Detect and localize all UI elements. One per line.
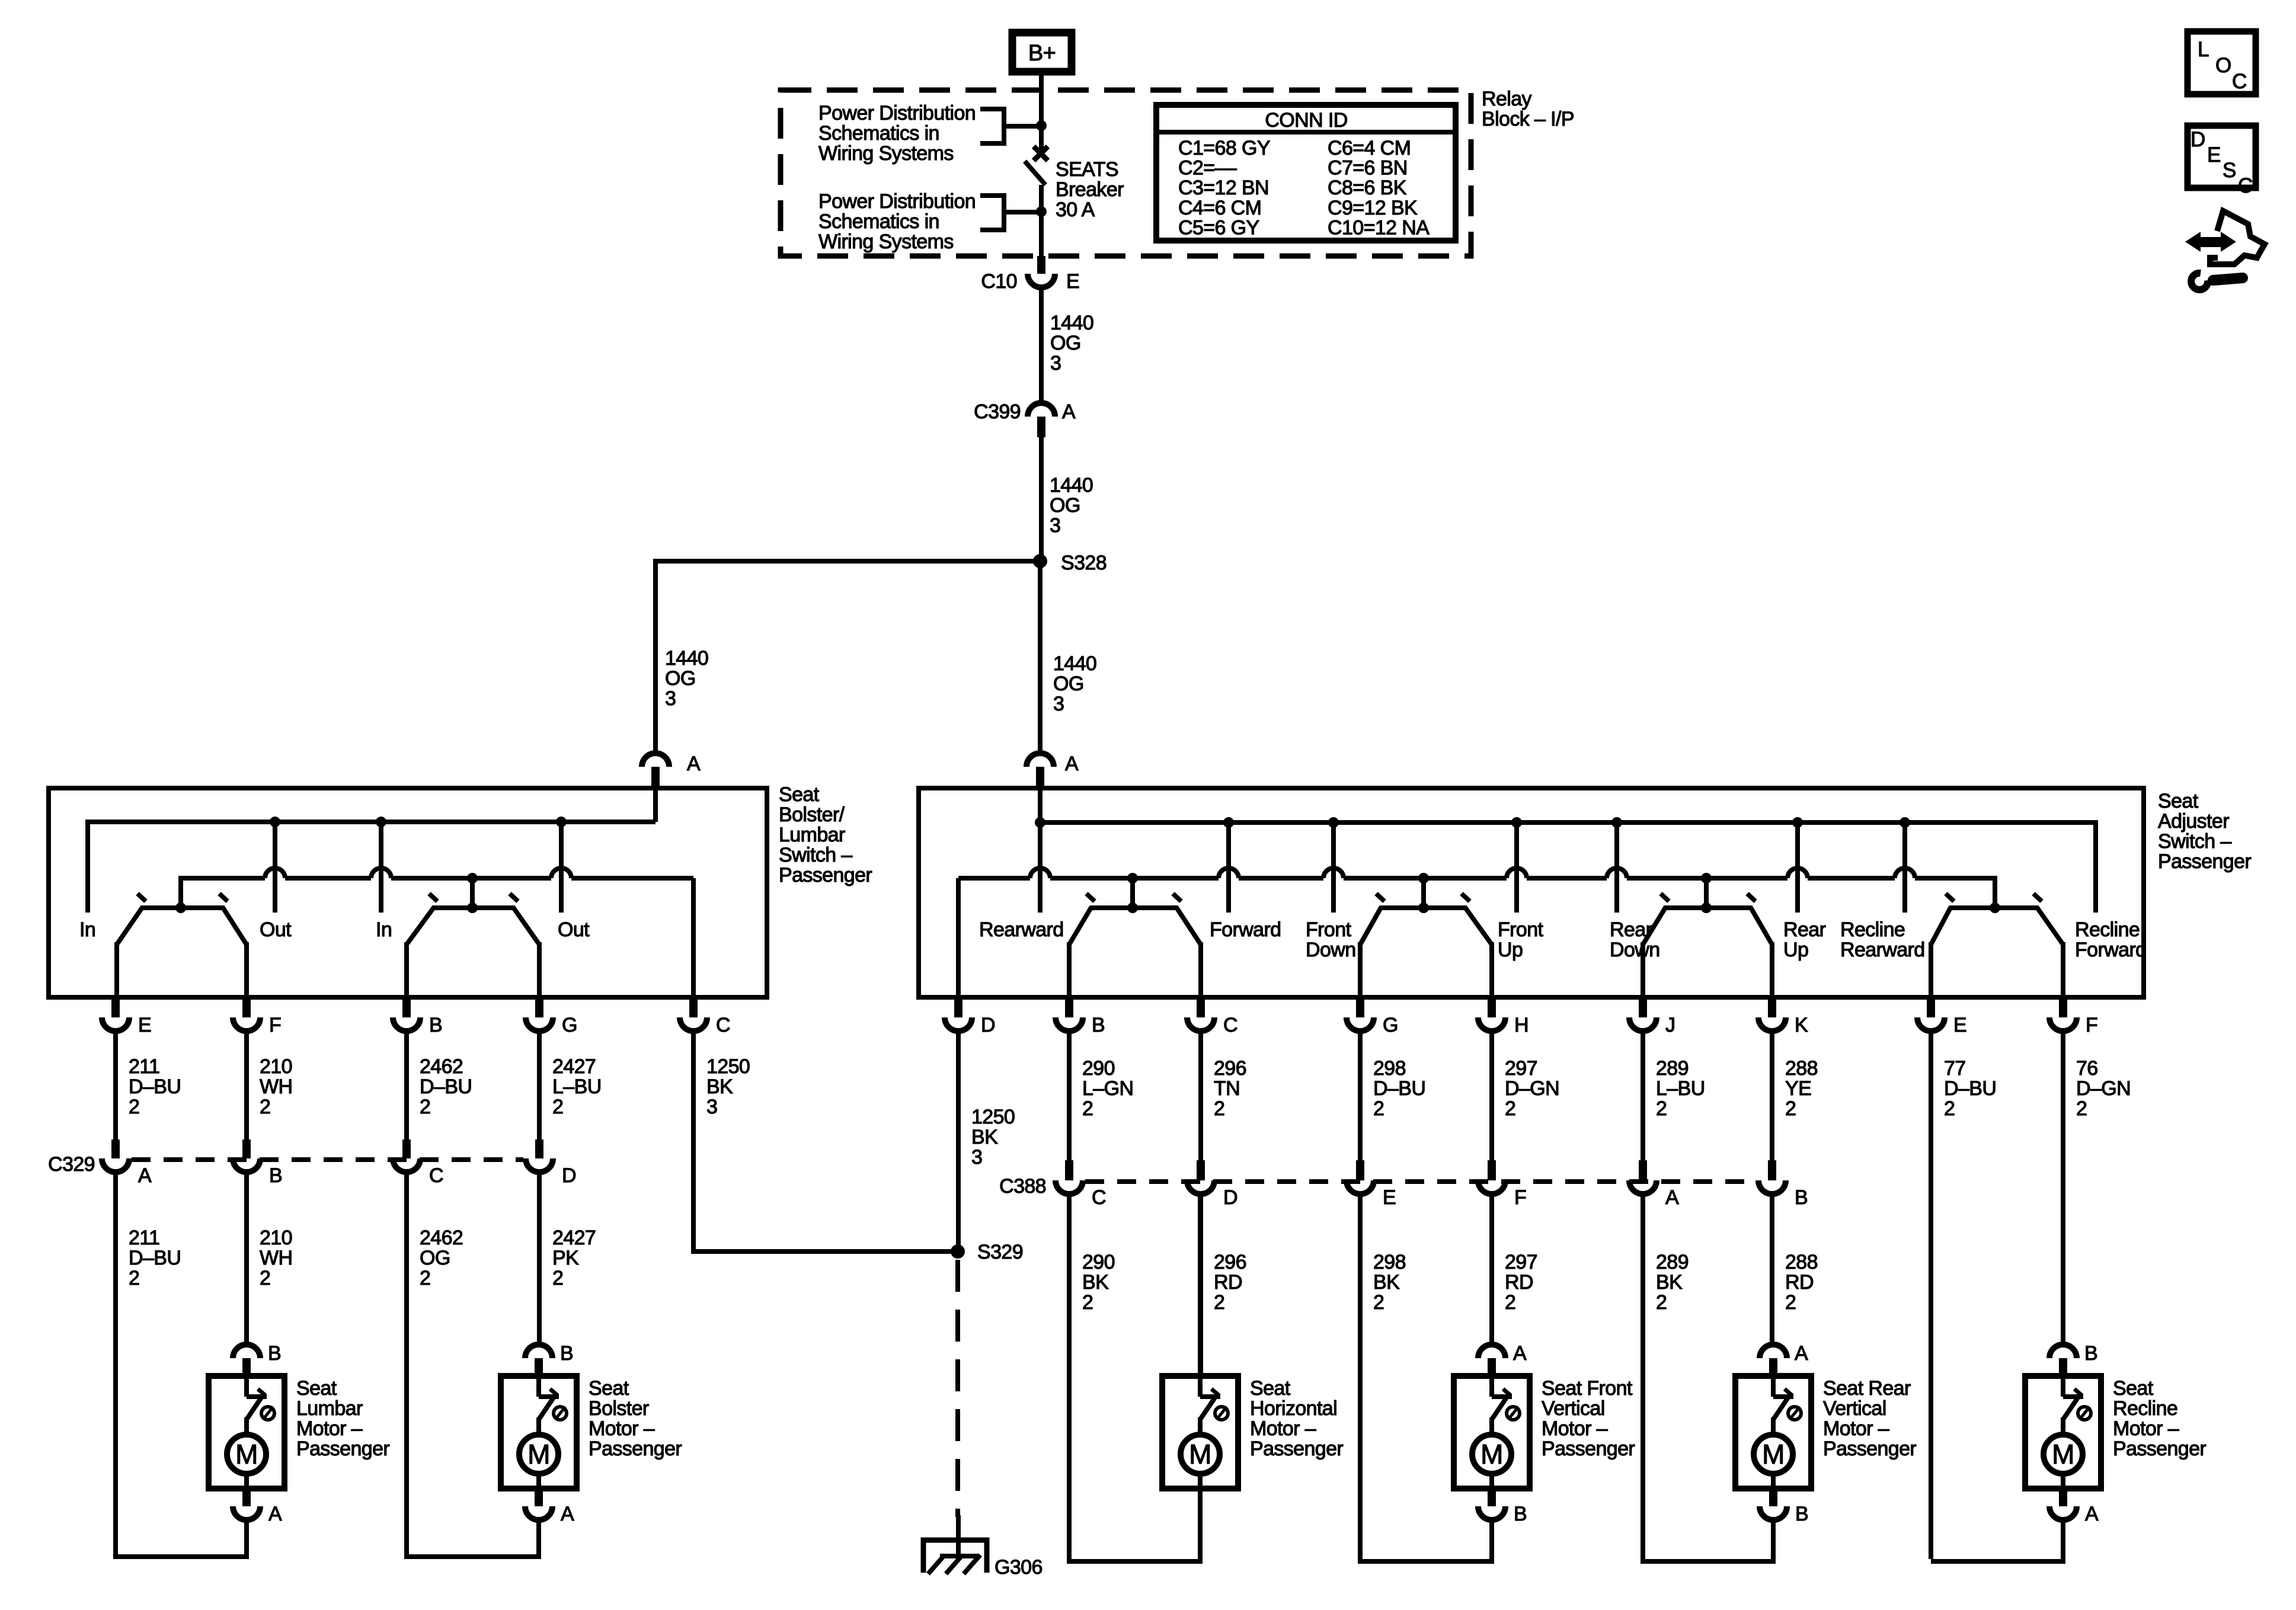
- svg-text:Power Distribution: Power Distribution: [818, 102, 976, 124]
- svg-text:2: 2: [552, 1096, 563, 1118]
- svg-text:210: 210: [260, 1055, 292, 1078]
- motor box: [2025, 1376, 2101, 1489]
- splice S329: [951, 1244, 965, 1259]
- svg-text:Motor –: Motor –: [1250, 1417, 1316, 1440]
- switch pair bar ['E', 'F']: [1950, 905, 2038, 910]
- svg-text:Out: Out: [260, 918, 292, 941]
- svg-text:B: B: [1514, 1503, 1527, 1525]
- double arrow icon: [2185, 232, 2236, 252]
- svg-text:2: 2: [420, 1267, 430, 1289]
- Seat Adjuster Switch box: [919, 788, 2144, 997]
- bar2 tick right: [510, 894, 518, 901]
- relay block dashed box: [781, 90, 1471, 256]
- svg-text:D: D: [2191, 128, 2205, 151]
- motor thermal protector circle: [261, 1407, 274, 1420]
- rail dot Forward: [1223, 817, 1234, 828]
- svg-text:1440: 1440: [1053, 652, 1096, 675]
- svg-text:C10: C10: [981, 270, 1017, 293]
- left box ground rail: [181, 876, 265, 881]
- svg-text:296: 296: [1214, 1057, 1246, 1080]
- switch arm E: [117, 907, 143, 945]
- ground hatch 2: [946, 1555, 962, 1574]
- svg-text:D–GN: D–GN: [2076, 1077, 2131, 1100]
- svg-text:PK: PK: [552, 1247, 579, 1269]
- motor wire M to bottom: [244, 1474, 249, 1489]
- connector A right switch: [1027, 753, 1054, 767]
- svg-text:Seat: Seat: [296, 1377, 337, 1400]
- motor connector top pin B: [525, 1345, 552, 1358]
- motor box: [1454, 1376, 1530, 1489]
- ground rail corner to bar1: [178, 876, 183, 908]
- motor wire M to bottom: [2061, 1474, 2065, 1489]
- svg-text:BK: BK: [1082, 1271, 1109, 1294]
- motor contact tick: [550, 1389, 558, 1395]
- svg-text:Seat: Seat: [2158, 790, 2199, 812]
- connector C388 pin D: [1197, 1160, 1205, 1180]
- svg-text:D: D: [981, 1014, 995, 1036]
- svg-text:TN: TN: [1214, 1077, 1240, 1100]
- svg-text:Passenger: Passenger: [1250, 1438, 1343, 1460]
- svg-text:F: F: [269, 1014, 281, 1036]
- svg-text:Schematics in: Schematics in: [818, 122, 939, 145]
- rail dot FrontDown: [1328, 817, 1339, 828]
- svg-text:Switch –: Switch –: [2158, 830, 2231, 853]
- svg-text:289: 289: [1656, 1057, 1689, 1080]
- wire 290 BK loop: [1069, 1194, 1198, 1561]
- motor internal jog: [539, 1394, 559, 1399]
- svg-text:Forward: Forward: [2075, 939, 2147, 961]
- svg-text:B: B: [2084, 1342, 2097, 1365]
- motor wire to M: [1198, 1417, 1203, 1435]
- rail dot Rearward: [1035, 817, 1045, 828]
- wire 289 BK loop: [1643, 1194, 1771, 1561]
- svg-text:Seat: Seat: [589, 1377, 629, 1400]
- svg-text:Passenger: Passenger: [2158, 850, 2251, 873]
- svg-text:C329: C329: [48, 1153, 95, 1176]
- svg-text:Passenger: Passenger: [296, 1438, 389, 1460]
- right box ground rail: [958, 876, 1030, 881]
- DESC icon box: [2188, 126, 2256, 188]
- svg-text:Bolster: Bolster: [589, 1397, 649, 1420]
- svg-text:YE: YE: [1785, 1077, 1811, 1100]
- ground hatch 3: [964, 1555, 980, 1574]
- left box B+ rail: [85, 820, 655, 824]
- motor thermal lever: [1774, 1397, 1789, 1419]
- svg-text:S328: S328: [1061, 552, 1107, 574]
- svg-text:E: E: [1953, 1014, 1966, 1036]
- rail drop FrontUp: [1514, 822, 1519, 913]
- wire 2462 D-BU seg1: [404, 1031, 409, 1140]
- svg-text:Front: Front: [1498, 918, 1544, 941]
- switch pair bar ['G', 'H']: [1380, 905, 1466, 910]
- svg-text:2: 2: [129, 1267, 139, 1289]
- rail drop Forward: [1226, 822, 1231, 913]
- svg-text:290: 290: [1082, 1057, 1115, 1080]
- connector C10 pin E: [1037, 256, 1045, 274]
- svg-text:C: C: [1223, 1014, 1237, 1036]
- svg-text:A: A: [1513, 1342, 1527, 1365]
- svg-text:H: H: [1514, 1014, 1528, 1036]
- svg-text:76: 76: [2076, 1057, 2098, 1080]
- motor wire to M: [244, 1417, 249, 1435]
- motor contact tick: [2074, 1389, 2082, 1395]
- svg-text:D–BU: D–BU: [420, 1076, 472, 1098]
- svg-text:290: 290: [1082, 1251, 1115, 1273]
- ground rail corner to bar4: [1993, 876, 1997, 908]
- junction dot bracket2: [1036, 206, 1047, 217]
- connector C388 pin A: [1639, 1160, 1647, 1180]
- svg-text:E: E: [1066, 270, 1079, 293]
- switch pair bar ['J', 'K']: [1665, 905, 1751, 910]
- right box pin F: [2059, 1000, 2067, 1017]
- svg-text:C2=––: C2=––: [1178, 157, 1237, 180]
- wire 288 RD to rear vertical motor: [1770, 1194, 1774, 1345]
- left rail drop Out1: [273, 822, 277, 913]
- switch arm G: [513, 907, 539, 945]
- arm F wire to pin: [244, 942, 249, 997]
- wire 288 YE upper: [1770, 1031, 1774, 1160]
- svg-text:Vertical: Vertical: [1542, 1397, 1605, 1420]
- Seat Bolster/Lumbar Switch box: [49, 788, 767, 997]
- svg-text:M: M: [235, 1439, 258, 1470]
- svg-text:2: 2: [552, 1267, 563, 1289]
- wire 1250 BK to S329: [691, 1249, 958, 1254]
- wire 2462 OG seg2 loop: [407, 1172, 536, 1557]
- motor internal feed: [1198, 1376, 1203, 1397]
- svg-text:S329: S329: [977, 1241, 1023, 1263]
- svg-text:Block – I/P: Block – I/P: [1482, 108, 1574, 130]
- svg-text:L: L: [2198, 38, 2209, 61]
- svg-text:298: 298: [1373, 1251, 1406, 1273]
- svg-text:Passenger: Passenger: [1823, 1438, 1916, 1460]
- svg-text:288: 288: [1785, 1057, 1818, 1080]
- svg-text:BK: BK: [1656, 1271, 1683, 1294]
- connector C329 pin C: [402, 1140, 411, 1158]
- svg-text:C5=6 GY: C5=6 GY: [1178, 216, 1259, 239]
- rail corner drop ReclineForward: [2093, 820, 2098, 913]
- CONN ID table box: [1156, 105, 1456, 241]
- svg-text:RD: RD: [1505, 1271, 1533, 1294]
- wire breaker to C10: [1039, 185, 1044, 256]
- svg-text:C: C: [429, 1164, 443, 1187]
- svg-text:1440: 1440: [665, 647, 708, 670]
- wire 2427 PK seg2: [537, 1172, 542, 1345]
- wire 297 RD to front vertical motor: [1489, 1194, 1494, 1345]
- svg-text:BK: BK: [971, 1126, 998, 1148]
- svg-text:A: A: [561, 1503, 574, 1525]
- svg-text:B: B: [269, 1164, 282, 1187]
- motor connector bottom pin A: [535, 1489, 543, 1506]
- dashed wire S329 to ground: [955, 1260, 960, 1517]
- motor wire to M: [1489, 1417, 1494, 1435]
- svg-text:289: 289: [1656, 1251, 1689, 1273]
- switch pair1 common bar: [142, 905, 223, 910]
- svg-text:WH: WH: [260, 1247, 292, 1269]
- svg-text:C10=12 NA: C10=12 NA: [1328, 216, 1430, 239]
- motor internal feed: [244, 1376, 249, 1397]
- motor connector top pin A: [1760, 1345, 1787, 1358]
- svg-text:Wiring Systems: Wiring Systems: [818, 142, 954, 165]
- motor contact tick: [1211, 1389, 1219, 1395]
- svg-text:A: A: [1062, 401, 1076, 423]
- motor thermal protector circle: [2078, 1407, 2091, 1420]
- left box pin G: [535, 1000, 543, 1017]
- motor connector top pin A: [1478, 1345, 1505, 1358]
- wire bracket2 to main: [1004, 210, 1041, 215]
- svg-text:B: B: [1092, 1014, 1105, 1036]
- circuit breaker SEATS 30A - X contact: [1034, 146, 1048, 161]
- svg-text:C: C: [716, 1014, 730, 1036]
- svg-text:2: 2: [1214, 1097, 1224, 1120]
- svg-text:1250: 1250: [971, 1106, 1015, 1128]
- svg-text:D–BU: D–BU: [1373, 1077, 1425, 1100]
- ground rail dot pair1: [1127, 873, 1138, 884]
- svg-text:2: 2: [1373, 1097, 1384, 1120]
- svg-text:2: 2: [1505, 1097, 1515, 1120]
- svg-text:Motor –: Motor –: [1542, 1417, 1608, 1440]
- svg-text:Schematics in: Schematics in: [818, 210, 939, 233]
- svg-text:211: 211: [129, 1055, 159, 1078]
- motor M circle: [2044, 1435, 2083, 1474]
- motor internal jog: [1492, 1394, 1512, 1399]
- rail dot FrontUp: [1511, 817, 1522, 828]
- connector C329 pin B: [242, 1140, 251, 1158]
- svg-text:K: K: [1795, 1014, 1808, 1036]
- svg-text:E: E: [2207, 143, 2221, 167]
- svg-text:1440: 1440: [1050, 312, 1093, 334]
- svg-text:A: A: [268, 1503, 282, 1525]
- wire 296 RD to horizontal motor: [1198, 1194, 1203, 1376]
- wire 77 D-BU recline loop: [1929, 1031, 1933, 1559]
- svg-text:Bolster/: Bolster/: [779, 804, 845, 826]
- switch arm F: [2036, 907, 2063, 945]
- svg-text:Relay: Relay: [1482, 88, 1532, 110]
- motor M circle: [1181, 1435, 1220, 1474]
- svg-text:1440: 1440: [1050, 474, 1093, 497]
- svg-text:2427: 2427: [552, 1227, 596, 1249]
- svg-text:C1=68 GY: C1=68 GY: [1178, 137, 1270, 159]
- svg-text:2462: 2462: [420, 1227, 463, 1249]
- svg-text:A: A: [687, 753, 701, 775]
- rail drop ReclineRearward: [1902, 822, 1907, 913]
- svg-text:Motor –: Motor –: [296, 1417, 363, 1440]
- svg-text:3: 3: [665, 687, 676, 710]
- svg-text:30 A: 30 A: [1056, 199, 1095, 221]
- svg-text:211: 211: [129, 1227, 159, 1249]
- svg-text:C: C: [2238, 174, 2253, 197]
- svg-text:Passenger: Passenger: [589, 1438, 682, 1460]
- rail dot RearDown: [1611, 817, 1622, 828]
- svg-text:3: 3: [1050, 352, 1061, 375]
- svg-text:C6=4 CM: C6=4 CM: [1328, 137, 1411, 159]
- svg-text:G: G: [562, 1014, 577, 1036]
- svg-text:C9=12 BK: C9=12 BK: [1328, 197, 1418, 219]
- motor internal jog: [247, 1394, 267, 1399]
- left box pin E: [111, 1000, 120, 1017]
- svg-text:298: 298: [1373, 1057, 1406, 1080]
- svg-text:C3=12 BN: C3=12 BN: [1178, 177, 1269, 199]
- rail dot ReclineRearward: [1900, 817, 1910, 828]
- motor thermal lever: [2064, 1397, 2078, 1419]
- svg-text:B: B: [1795, 1186, 1808, 1209]
- motor thermal lever: [1492, 1397, 1507, 1419]
- svg-text:Rear: Rear: [1610, 918, 1652, 941]
- svg-text:Adjuster: Adjuster: [2158, 810, 2229, 833]
- svg-text:A: A: [138, 1164, 152, 1187]
- motor connector top pin B: [233, 1345, 260, 1358]
- LOC icon box: [2188, 31, 2256, 94]
- connector C388 pin B: [1768, 1160, 1776, 1180]
- connector C329 pin A: [111, 1140, 120, 1158]
- svg-text:In: In: [376, 918, 392, 941]
- ground rail dot pair2: [1418, 873, 1429, 884]
- ground rail stub pair2: [1421, 878, 1426, 908]
- wire 210 WH seg1: [244, 1031, 249, 1140]
- svg-text:Seat: Seat: [779, 783, 820, 806]
- motor thermal lever: [247, 1397, 262, 1419]
- left box pin C: [689, 1000, 698, 1017]
- svg-text:Recline: Recline: [2113, 1397, 2177, 1420]
- svg-text:Up: Up: [1783, 939, 1808, 961]
- left rail drop In1: [85, 820, 90, 913]
- svg-text:Rearward: Rearward: [1840, 939, 1925, 961]
- svg-text:M: M: [2052, 1439, 2074, 1470]
- wire 211 D-BU seg1: [113, 1031, 118, 1140]
- motor thermal lever: [1201, 1397, 1216, 1419]
- svg-text:In: In: [79, 918, 95, 941]
- arm E wire to pin: [114, 942, 119, 997]
- svg-text:210: 210: [260, 1227, 292, 1249]
- ground rail stub pair1: [1130, 878, 1135, 908]
- wire 76 D-GN to recline motor: [2061, 1031, 2065, 1345]
- left box pin F: [242, 1000, 251, 1017]
- svg-text:2: 2: [1785, 1097, 1796, 1120]
- motor contact tick: [258, 1389, 266, 1395]
- svg-text:297: 297: [1505, 1057, 1537, 1080]
- svg-text:B: B: [1795, 1503, 1808, 1525]
- svg-text:Recline: Recline: [1840, 918, 1905, 941]
- CONN ID header rule: [1156, 130, 1456, 135]
- right box pin C: [1197, 1000, 1205, 1017]
- motor connector bottom pin B: [1769, 1489, 1777, 1506]
- svg-text:2: 2: [420, 1096, 430, 1118]
- svg-text:Down: Down: [1610, 939, 1660, 961]
- switch arm C: [1176, 907, 1201, 945]
- motor wire M to bottom: [1198, 1474, 1203, 1489]
- svg-text:A: A: [1795, 1342, 1808, 1365]
- motor box: [1735, 1376, 1811, 1489]
- svg-text:E: E: [1383, 1186, 1396, 1209]
- junction dot bracket1: [1036, 120, 1047, 131]
- svg-text:D: D: [1223, 1186, 1237, 1209]
- svg-text:B: B: [268, 1342, 281, 1365]
- switch arm F: [222, 907, 247, 945]
- arm B wire to pin: [404, 942, 409, 997]
- svg-text:2: 2: [1505, 1291, 1515, 1314]
- svg-text:Passenger: Passenger: [2113, 1438, 2206, 1460]
- ground hatch 1: [928, 1555, 945, 1574]
- ground rail dot pair3: [1701, 873, 1712, 884]
- svg-text:Horizontal: Horizontal: [1250, 1397, 1337, 1420]
- ground rail corner down to pin C: [691, 878, 696, 997]
- svg-text:Recline: Recline: [2075, 918, 2140, 941]
- svg-text:RD: RD: [1785, 1271, 1814, 1294]
- switch arm B: [1069, 907, 1092, 945]
- svg-text:C7=6 BN: C7=6 BN: [1328, 157, 1408, 180]
- svg-text:BK: BK: [1373, 1271, 1400, 1294]
- svg-text:2: 2: [1082, 1291, 1093, 1314]
- svg-text:OG: OG: [420, 1247, 450, 1269]
- switch pair bar ['B', 'C']: [1091, 905, 1177, 910]
- bar1 tick right: [219, 894, 228, 901]
- wire 296 TN upper: [1198, 1031, 1203, 1160]
- switch arm G: [1360, 907, 1382, 945]
- left rail drop Out2: [559, 822, 564, 913]
- motor thermal lever: [539, 1397, 554, 1419]
- svg-text:Front: Front: [1306, 918, 1352, 941]
- svg-text:Passenger: Passenger: [779, 864, 872, 886]
- wire C399 to S328 1440 OG: [1039, 437, 1044, 561]
- connector C329 pin D: [535, 1140, 543, 1158]
- motor wire M to bottom: [1489, 1474, 1494, 1489]
- svg-text:S: S: [2223, 159, 2236, 182]
- left box pin B: [402, 1000, 411, 1017]
- svg-text:Power Distribution: Power Distribution: [818, 190, 976, 213]
- right box pin D: [954, 1000, 962, 1017]
- wire 211 D-BU seg2 loop: [116, 1172, 244, 1557]
- svg-text:SEATS: SEATS: [1056, 158, 1118, 181]
- rail dot In2: [376, 817, 386, 827]
- svg-text:BK: BK: [706, 1076, 733, 1098]
- wire S328 branch left: [655, 559, 1040, 564]
- svg-text:Out: Out: [558, 918, 590, 941]
- wire 210 WH seg2: [244, 1172, 249, 1345]
- svg-text:296: 296: [1214, 1251, 1246, 1273]
- bracket power distribution 2: [980, 196, 1004, 230]
- svg-text:B: B: [560, 1342, 573, 1365]
- svg-text:Passenger: Passenger: [1542, 1438, 1635, 1460]
- svg-text:Rear: Rear: [1783, 918, 1826, 941]
- svg-text:CONN ID: CONN ID: [1265, 109, 1347, 132]
- wire 289 L–BU upper: [1641, 1031, 1645, 1160]
- rail dot Out1: [270, 817, 280, 827]
- svg-text:2462: 2462: [420, 1055, 463, 1078]
- svg-text:C399: C399: [974, 401, 1021, 423]
- motor internal feed: [1489, 1376, 1494, 1397]
- svg-text:C8=6 BK: C8=6 BK: [1328, 177, 1407, 199]
- motor thermal protector circle: [1788, 1407, 1801, 1420]
- C388 dashed line: [1085, 1179, 1756, 1184]
- motor contact tick: [1785, 1389, 1792, 1395]
- motor internal feed: [536, 1376, 541, 1397]
- wire 1250 BK seg1: [691, 1031, 696, 1251]
- right box pin K: [1768, 1000, 1776, 1017]
- connector outline icon: [2210, 211, 2265, 264]
- motor wire M to bottom: [536, 1474, 541, 1489]
- motor internal feed: [1771, 1376, 1776, 1397]
- svg-text:L–BU: L–BU: [552, 1076, 602, 1098]
- svg-text:Up: Up: [1498, 939, 1523, 961]
- svg-text:C4=6 CM: C4=6 CM: [1178, 197, 1261, 219]
- svg-text:J: J: [1665, 1014, 1675, 1036]
- svg-text:C388: C388: [999, 1175, 1046, 1198]
- rail drop RearUp: [1795, 822, 1800, 913]
- rail drop Rearward: [1038, 822, 1043, 913]
- switch arm K: [1750, 907, 1772, 945]
- connector C399 pin A: [1028, 403, 1055, 417]
- motor wire M to bottom: [1771, 1474, 1776, 1489]
- svg-text:Seat: Seat: [2113, 1377, 2154, 1400]
